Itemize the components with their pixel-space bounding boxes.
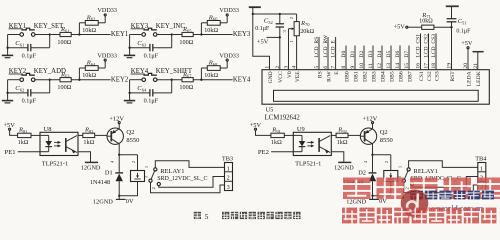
svg-text:+5V: +5V	[394, 23, 406, 30]
watermark navy text (CJK)	[411, 191, 423, 200]
svg-text:RS: RS	[317, 71, 323, 78]
svg-text:D7: D7	[404, 51, 410, 58]
svg-text:3: 3	[284, 66, 290, 69]
svg-text:1: 1	[144, 166, 149, 168]
svg-text:1: 1	[480, 165, 483, 172]
wire	[171, 35, 173, 48]
resistor R92 1k	[331, 134, 336, 136]
svg-text:2: 2	[384, 161, 389, 163]
optocoupler U9 TLP521-1	[293, 132, 331, 155]
svg-text:10kΩ: 10kΩ	[204, 72, 218, 79]
optocoupler U8 TLP521-1	[40, 132, 78, 155]
wire collector node	[118, 154, 120, 156]
capacitor C61	[8, 47, 28, 49]
resistor R62	[78, 23, 80, 35]
svg-text:R/W: R/W	[326, 71, 332, 82]
wire NO to TB pin2	[159, 177, 225, 188]
svg-text:4: 4	[292, 66, 298, 69]
LCD module U5 LCM192642	[262, 70, 489, 105]
svg-text:20: 20	[463, 63, 469, 69]
svg-text:VDD33: VDD33	[219, 52, 239, 59]
svg-text:0V: 0V	[126, 198, 134, 205]
svg-text:10kΩ: 10kΩ	[419, 19, 433, 25]
svg-text:1kΩ: 1kΩ	[18, 139, 29, 146]
svg-text:0V: 0V	[379, 198, 387, 205]
svg-text:19: 19	[447, 63, 453, 69]
watermark red text line 1 (CJK)	[343, 178, 371, 200]
pin 14 DB6	[399, 46, 401, 70]
pushbutton KEY_ADD	[20, 78, 24, 82]
svg-text:U8: U8	[44, 126, 52, 133]
svg-text:21: 21	[473, 63, 479, 69]
svg-text:U9: U9	[297, 126, 305, 133]
wire	[256, 130, 271, 135]
svg-text:E: E	[334, 71, 340, 75]
svg-text:RELAY1: RELAY1	[160, 168, 184, 175]
ground KEY2 circuit	[7, 93, 9, 101]
pushbutton KEY_INC	[142, 33, 146, 37]
svg-text:Q2: Q2	[126, 129, 134, 136]
wire	[31, 134, 40, 136]
svg-text:1: 1	[397, 166, 402, 168]
svg-text:KEY1: KEY1	[111, 31, 128, 38]
ground (C51 top)	[446, 5, 459, 7]
pin 16 CS1	[420, 34, 422, 70]
svg-text:12GND: 12GND	[93, 199, 113, 206]
svg-text:1N4148: 1N4148	[90, 179, 110, 186]
svg-text:10kΩ: 10kΩ	[82, 27, 96, 34]
svg-text:KEY3: KEY3	[233, 31, 251, 38]
svg-text:KEY2: KEY2	[111, 76, 129, 83]
svg-text:+12V: +12V	[363, 116, 378, 123]
svg-text:D1: D1	[105, 170, 113, 177]
svg-text:+5V: +5V	[257, 39, 269, 46]
svg-text:16: 16	[416, 63, 422, 69]
wire GND to pin1	[253, 14, 270, 70]
svg-text:5: 5	[205, 212, 209, 221]
pin 5 RS	[318, 37, 320, 70]
svg-text:D2: D2	[359, 51, 365, 58]
wire	[71, 79, 110, 81]
svg-text:LCD_CS1: LCD_CS1	[416, 34, 422, 58]
transistor Q2 8550	[107, 128, 123, 144]
pin 17 CS2	[428, 34, 430, 70]
ground KEY1 circuit	[7, 48, 9, 56]
pin 10 DB2	[363, 46, 365, 70]
svg-text:RST: RST	[450, 71, 456, 82]
wire collector node	[371, 154, 373, 156]
svg-text:DB3: DB3	[371, 71, 377, 82]
svg-text:18: 18	[431, 63, 437, 69]
svg-text:8550: 8550	[380, 137, 393, 144]
svg-text:D5: D5	[386, 51, 392, 58]
wire NC to TB pin3	[404, 182, 478, 192]
svg-text:VDD33: VDD33	[219, 7, 239, 14]
svg-text:DB6: DB6	[398, 71, 404, 82]
svg-text:TB3: TB3	[222, 156, 233, 163]
diode D2 1N4148	[372, 155, 374, 173]
pin 8 DB0	[345, 46, 347, 70]
wire	[129, 80, 131, 94]
svg-text:1: 1	[265, 66, 271, 69]
svg-text:0.1μF: 0.1μF	[456, 28, 471, 34]
pin 9 DB1	[354, 46, 356, 70]
svg-text:DB7: DB7	[407, 71, 413, 82]
capacitor C52	[279, 14, 281, 24]
svg-text:0.1μF: 0.1μF	[144, 52, 159, 59]
svg-text:D3: D3	[368, 51, 374, 58]
pin 15 DB7	[408, 46, 410, 70]
svg-text:8: 8	[341, 66, 347, 69]
capacitor C63	[130, 47, 150, 49]
svg-text:100Ω: 100Ω	[179, 39, 193, 46]
svg-text:LCD_CS3: LCD_CS3	[431, 34, 437, 58]
wire	[8, 79, 20, 81]
wire	[34, 79, 60, 81]
svg-text:12GND: 12GND	[346, 199, 366, 206]
pin 11 DB3	[372, 46, 374, 70]
pin 13 DB5	[390, 46, 392, 70]
wire	[49, 80, 51, 93]
svg-text:VCC: VCC	[278, 71, 284, 83]
svg-text:0.1μF: 0.1μF	[22, 52, 37, 59]
power VDD33 terminal	[104, 16, 106, 23]
svg-text:PE2: PE2	[258, 149, 269, 156]
resistor R61	[60, 32, 71, 36]
wire	[71, 34, 110, 36]
wire	[129, 35, 131, 49]
svg-text:17: 17	[424, 63, 430, 69]
svg-text:DB4: DB4	[380, 71, 386, 82]
svg-text:1kΩ: 1kΩ	[337, 139, 348, 146]
resistor R67	[182, 78, 193, 82]
svg-text:CS1: CS1	[419, 71, 425, 81]
svg-text:V0: V0	[287, 71, 293, 78]
svg-text:Q2: Q2	[380, 129, 388, 136]
pin 6 R/W	[327, 37, 329, 70]
svg-text:3: 3	[227, 184, 230, 191]
svg-text:2: 2	[151, 187, 156, 189]
svg-text:LCM192642: LCM192642	[265, 115, 301, 122]
relay contacts RELAY1 SRD-12VDC-SL-C	[407, 168, 410, 171]
svg-text:LCD_RW: LCD_RW	[323, 34, 329, 57]
svg-text:LCD_E: LCD_E	[331, 40, 337, 58]
resistor R81 1k	[18, 133, 31, 137]
svg-text:D1: D1	[350, 51, 356, 58]
pin 12 DB4	[381, 46, 383, 70]
wire common to TB pin1	[155, 161, 224, 168]
wire	[8, 34, 20, 36]
wire NC to TB pin3	[151, 182, 225, 192]
power VDD33 terminal	[226, 16, 228, 23]
svg-text:TB4: TB4	[475, 156, 487, 163]
svg-text:0.1μF: 0.1μF	[22, 98, 37, 105]
svg-text:10: 10	[359, 63, 365, 69]
svg-text:2: 2	[275, 66, 281, 69]
pushbutton KEY_SHIFT	[142, 78, 146, 82]
capacitor C51	[447, 18, 457, 20]
svg-text:+12V: +12V	[109, 116, 124, 123]
svg-text:PE1: PE1	[5, 149, 16, 156]
capacitor C62	[8, 92, 28, 94]
svg-text:1kΩ: 1kΩ	[83, 139, 94, 146]
wire	[130, 79, 142, 81]
watermark logo circle d	[401, 189, 429, 217]
wire	[49, 35, 51, 48]
svg-text:2: 2	[131, 161, 136, 163]
ground (top rail)	[249, 6, 261, 8]
svg-text:KEY_INC: KEY_INC	[156, 23, 186, 30]
wire	[7, 35, 9, 49]
wire	[10, 130, 18, 135]
svg-text:D2: D2	[358, 170, 366, 177]
wire	[284, 134, 293, 136]
capacitor C64	[130, 92, 150, 94]
resistor R66	[200, 23, 202, 35]
pin 18 CS3	[435, 34, 437, 70]
potentiometer R70 20k	[296, 14, 298, 22]
svg-text:LCD_CS2: LCD_CS2	[424, 34, 430, 58]
svg-text:DB1: DB1	[353, 71, 359, 82]
svg-text:7: 7	[331, 66, 337, 69]
power VDD33 terminal	[104, 61, 106, 68]
power VDD33 terminal	[226, 61, 228, 68]
wire common to TB pin1	[409, 161, 478, 168]
svg-text:VEE: VEE	[295, 71, 301, 82]
svg-text:2: 2	[227, 175, 230, 182]
svg-text:9: 9	[350, 66, 356, 69]
svg-text:LCD_RS: LCD_RS	[314, 37, 320, 58]
svg-text:KEY4: KEY4	[233, 76, 251, 83]
caption: figure 5 I/O module schematic (CJK)	[194, 212, 201, 219]
svg-text:RELAY1: RELAY1	[414, 168, 438, 175]
svg-text:D6: D6	[395, 51, 401, 58]
ground 12GND (emitter)	[331, 152, 344, 163]
svg-text:1: 1	[227, 165, 230, 172]
svg-text:100Ω: 100Ω	[57, 84, 71, 91]
svg-text:GND: GND	[268, 71, 274, 83]
svg-text:12GND: 12GND	[334, 165, 354, 172]
svg-text:U5: U5	[266, 107, 274, 114]
svg-text:2: 2	[404, 187, 409, 189]
svg-text:20kΩ: 20kΩ	[300, 28, 314, 35]
wire	[156, 34, 182, 36]
power +5V tap (VCC)	[267, 36, 280, 38]
svg-text:D0: D0	[341, 51, 347, 58]
wire	[171, 80, 173, 93]
transistor Q2 8550	[360, 128, 376, 144]
wire	[156, 79, 182, 81]
svg-text:10kΩ: 10kΩ	[82, 72, 96, 79]
ground KEY3 circuit	[129, 48, 131, 56]
wire	[193, 34, 232, 36]
svg-text:3: 3	[144, 176, 149, 178]
pin 7 E	[335, 37, 337, 70]
svg-text:KEY_SET: KEY_SET	[34, 23, 64, 30]
svg-text:14: 14	[395, 63, 401, 69]
ground 12GND (emitter)	[78, 152, 91, 163]
svg-text:TLP521-1: TLP521-1	[295, 161, 321, 168]
wire NO to TB pin2	[412, 177, 478, 188]
relay coil	[131, 171, 145, 182]
power rail bar (LEDK)	[473, 51, 484, 53]
wire pin19 RST	[451, 27, 453, 69]
svg-text:CS2: CS2	[427, 71, 433, 81]
wire	[193, 79, 232, 81]
svg-text:5: 5	[314, 66, 320, 69]
svg-text:12: 12	[377, 63, 383, 69]
svg-text:LEDA: LEDA	[466, 71, 472, 86]
svg-text:CS3: CS3	[434, 71, 440, 81]
relay contacts RELAY1 SRD-12VDC-SL-C	[154, 168, 157, 171]
svg-text:VDD33: VDD33	[97, 7, 117, 14]
wire	[130, 34, 142, 36]
svg-text:1kΩ: 1kΩ	[271, 139, 282, 146]
watermark red text line 2 (CJK)	[342, 208, 357, 224]
svg-text:+5V: +5V	[461, 40, 473, 47]
svg-text:DB2: DB2	[362, 71, 368, 82]
resistor R91 1k	[271, 133, 284, 137]
pushbutton KEY_SET	[20, 33, 24, 37]
svg-text:D4: D4	[377, 51, 383, 58]
svg-text:TLP521-1: TLP521-1	[42, 161, 68, 168]
svg-text:DB5: DB5	[389, 71, 395, 82]
wire coil to 0V	[119, 182, 137, 196]
svg-text:DB0: DB0	[344, 71, 350, 82]
svg-text:12GND: 12GND	[81, 165, 101, 172]
wire	[34, 34, 60, 36]
resistor R65	[182, 32, 193, 36]
wire coil to 0V	[373, 182, 391, 196]
svg-text:10kΩ: 10kΩ	[204, 27, 218, 34]
diode D1 1N4148	[118, 155, 120, 173]
svg-text:SRD_12VDC_SL_C: SRD_12VDC_SL_C	[157, 176, 207, 182]
relay coil	[384, 171, 398, 182]
svg-text:6: 6	[323, 66, 329, 69]
svg-text:11: 11	[368, 63, 374, 69]
svg-text:VDD33: VDD33	[97, 52, 117, 59]
svg-text:100Ω: 100Ω	[179, 84, 193, 91]
ground 12GND 0V rail	[369, 198, 379, 200]
svg-text:0.1μF: 0.1μF	[255, 26, 270, 32]
resistor R82 1k	[78, 134, 83, 136]
resistor R64	[78, 68, 80, 80]
wire	[7, 80, 9, 94]
ground KEY4 circuit	[129, 93, 131, 101]
wire top rail	[253, 13, 297, 15]
svg-text:13: 13	[386, 63, 392, 69]
svg-text:8550: 8550	[126, 137, 139, 144]
svg-text:15: 15	[404, 63, 410, 69]
svg-text:LEDK: LEDK	[476, 71, 482, 86]
svg-text:100Ω: 100Ω	[57, 39, 71, 46]
svg-text:0.1μF: 0.1μF	[144, 98, 159, 105]
ground 12GND 0V rail	[116, 198, 126, 200]
resistor R68	[200, 68, 202, 80]
resistor R63	[60, 78, 71, 82]
